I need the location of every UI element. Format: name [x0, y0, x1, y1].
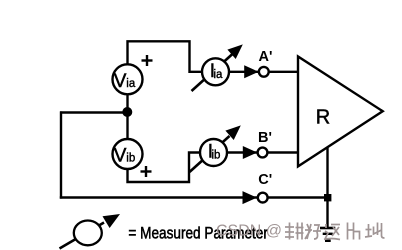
- svg-text:V: V: [114, 71, 127, 92]
- svg-text:ib: ib: [126, 153, 135, 165]
- watermark char 好: [305, 224, 321, 239]
- watermark char 片: [348, 223, 360, 240]
- svg-text:A': A': [259, 49, 273, 65]
- wire: V_ia bottom through junction to V_ib top: [126, 94, 128, 140]
- voltage source V_ia: [113, 64, 143, 94]
- measured-parameter arrow on I_ia: [192, 44, 243, 91]
- wire: left rail vertical: [60, 111, 62, 198]
- current meter I_ib: [200, 139, 227, 166]
- plus sign for V_ia: [142, 55, 153, 66]
- wire: I_ia output to node A': [229, 71, 260, 73]
- arrowhead into node A': [244, 65, 258, 78]
- svg-text:ia: ia: [214, 69, 224, 81]
- svg-text:R: R: [316, 106, 330, 128]
- svg-text:ib: ib: [212, 150, 221, 162]
- current meter I_ia: [202, 58, 229, 85]
- watermark char 这: [324, 224, 340, 240]
- wire: node A' to amplifier: [268, 71, 298, 73]
- arrowhead into node B': [243, 146, 257, 159]
- measured-parameter arrow on I_ib: [190, 125, 241, 172]
- node A' terminal: [259, 67, 269, 77]
- svg-text:V: V: [114, 146, 127, 167]
- watermark char 地: [365, 223, 385, 239]
- watermark char 耕: [285, 223, 304, 240]
- svg-text:B': B': [258, 130, 272, 146]
- wire: node C' to junction below amplifier: [268, 196, 329, 198]
- wire: V_ib bottom loop to I_ib: [128, 153, 202, 183]
- plus sign for V_ib: [141, 166, 152, 177]
- node B' terminal: [258, 148, 268, 158]
- svg-text:C': C': [258, 172, 272, 188]
- wire: junction to left rail: [60, 111, 128, 113]
- arrowhead into node C': [243, 191, 257, 204]
- junction dot on C' rail: [324, 194, 331, 201]
- wire: bottom C' rail: [60, 196, 257, 198]
- junction dot between V_ia and V_ib: [122, 107, 132, 117]
- wire: amplifier bottom to C' rail and ground: [326, 146, 328, 227]
- wire: node B' to amplifier: [267, 151, 299, 153]
- wire: V_ia top loop to I_ia: [128, 41, 203, 72]
- svg-text:CSDN @: CSDN @: [216, 223, 282, 240]
- svg-text:ia: ia: [126, 78, 136, 90]
- voltage source V_ib: [113, 139, 143, 169]
- amplifier R: [298, 57, 383, 167]
- node C' terminal: [258, 193, 268, 203]
- wire: I_ib output to node B': [227, 151, 258, 153]
- legend measured-parameter symbol: [60, 214, 121, 249]
- ground: [320, 228, 335, 241]
